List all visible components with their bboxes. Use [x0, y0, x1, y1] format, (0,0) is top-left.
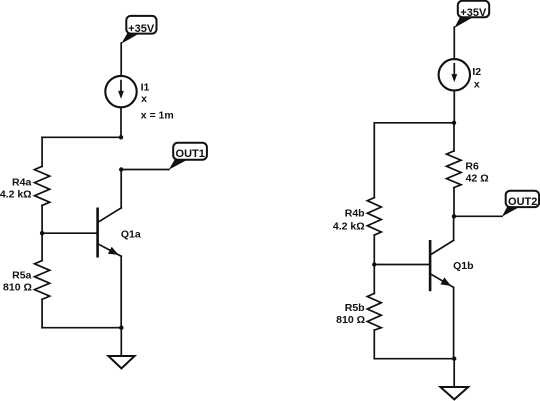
label I1 and value x = 1m: [141, 81, 174, 121]
svg-text:4.2 kΩ: 4.2 kΩ: [333, 220, 365, 232]
svg-text:810 Ω: 810 Ω: [3, 281, 32, 293]
wire Q1a emitter down: [120, 256, 122, 328]
svg-text:R6: R6: [465, 161, 479, 173]
power flag +35V (left): [121, 16, 156, 44]
wire down to R4b: [373, 123, 375, 198]
label R4a 4.2 kOhm: [0, 177, 32, 201]
resistor R4b: [367, 198, 381, 236]
label R5a 810 Ohm: [3, 269, 32, 293]
wire R6 to OUT2 node: [453, 188, 455, 217]
label R4b 4.2 kOhm: [333, 208, 365, 233]
junction node A: [119, 135, 123, 139]
label I2 and value x: [472, 66, 481, 90]
svg-text:OUT1: OUT1: [176, 148, 205, 160]
junction OUT2 node: [452, 214, 456, 218]
wire base of Q1b: [374, 264, 430, 266]
ground (left): [108, 356, 134, 368]
svg-text:R4a: R4a: [12, 177, 31, 189]
junction base node (right): [372, 262, 376, 266]
wire node B to left branch (right circuit): [374, 122, 454, 124]
svg-text:I2: I2: [472, 66, 481, 78]
ground (right): [440, 387, 468, 399]
wire left branch down to R4a: [41, 137, 43, 166]
current source I1: [105, 76, 136, 107]
svg-text:x = 1m: x = 1m: [141, 110, 174, 122]
power flag +35V (right): [454, 1, 489, 28]
wire base of Q1a: [42, 232, 98, 234]
wire OUT1 node to flag: [121, 169, 169, 171]
wire bottom rail (right): [374, 358, 454, 360]
svg-text:+35V: +35V: [460, 7, 487, 19]
wire R5a to bottom rail (left): [41, 299, 43, 327]
wire node B to R6: [453, 123, 455, 151]
svg-text:I1: I1: [141, 81, 150, 93]
wire OUT2 node to flag: [454, 215, 502, 217]
wire to ground (right): [453, 359, 455, 387]
wire +35V flag to I2 top: [453, 27, 455, 59]
junction ground node (right): [452, 357, 456, 361]
transistor Q1b: [430, 240, 454, 290]
wire I1 bottom to node A: [120, 107, 122, 137]
wire I2 bottom to node B: [453, 91, 455, 123]
junction ground node (left): [119, 326, 123, 330]
net flag OUT2: [502, 191, 539, 217]
resistor R4a: [35, 166, 50, 205]
wire Q1a collector to OUT1 node: [120, 170, 122, 208]
resistor R6: [447, 151, 462, 188]
current source I2: [439, 59, 470, 90]
svg-text:x: x: [141, 93, 147, 105]
junction OUT1 node: [119, 167, 123, 171]
label R5b 810 Ohm: [336, 302, 365, 326]
net flag OUT1: [169, 143, 207, 170]
svg-text:R4b: R4b: [345, 208, 365, 220]
svg-text:Q1b: Q1b: [453, 260, 473, 272]
junction base node (left): [40, 231, 44, 235]
svg-text:42 Ω: 42 Ω: [466, 172, 489, 184]
label R6 42 Ohm: [465, 161, 488, 185]
svg-text:OUT2: OUT2: [508, 196, 537, 208]
wire bottom rail (left): [42, 327, 121, 329]
wire R5b to bottom rail (right): [373, 330, 375, 359]
svg-text:R5b: R5b: [345, 302, 365, 314]
resistor R5b: [367, 293, 381, 330]
wire R4b to R5b: [373, 235, 375, 293]
transistor Q1a: [98, 208, 122, 256]
wire +35V flag to I1 top: [120, 43, 122, 76]
junction node B: [452, 121, 456, 125]
wire R4a to R5a: [41, 206, 43, 261]
wire to ground (left): [120, 328, 122, 356]
svg-text:+35V: +35V: [128, 23, 155, 35]
svg-text:Q1a: Q1a: [121, 229, 141, 241]
svg-text:4.2 kΩ: 4.2 kΩ: [0, 188, 32, 200]
wire Q1b emitter down: [453, 287, 455, 358]
svg-text:810 Ω: 810 Ω: [336, 314, 365, 326]
wire node A to left branch top: [42, 136, 121, 138]
svg-text:x: x: [474, 78, 480, 90]
svg-text:R5a: R5a: [12, 269, 31, 281]
wire Q1b collector to OUT2 node: [453, 216, 455, 240]
resistor R5a: [35, 261, 50, 300]
